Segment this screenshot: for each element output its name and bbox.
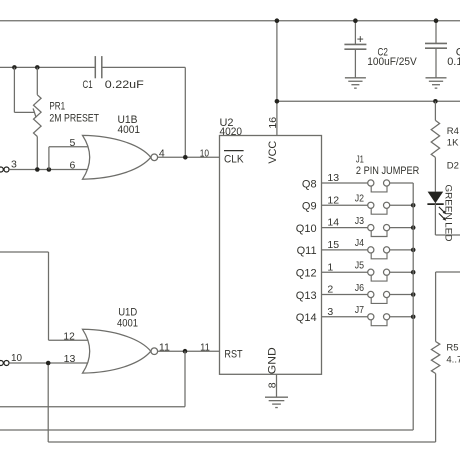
svg-text:2: 2 <box>327 284 333 296</box>
wire jumper J2 to bus <box>390 204 414 206</box>
gate U1B NOR body <box>83 135 151 179</box>
wire bottom return line <box>48 441 435 443</box>
svg-text:15: 15 <box>327 239 339 251</box>
pin number 11 at RST <box>200 342 210 354</box>
wire second VCC bus <box>277 100 460 102</box>
wire C1 right segment <box>102 66 186 68</box>
svg-text:12: 12 <box>63 330 75 342</box>
label C1 <box>83 79 93 91</box>
wire jumper J3 to bus <box>390 227 414 229</box>
U1D output bubble <box>151 348 158 355</box>
svg-text:4001: 4001 <box>118 124 141 136</box>
svg-text:13: 13 <box>64 353 76 365</box>
wire U2 Q12 pin 1 to jumper <box>322 271 368 273</box>
value 0.1uF clipped <box>447 56 460 68</box>
svg-text:J3: J3 <box>355 215 364 227</box>
node jumper bus junction J5 <box>411 270 416 275</box>
wire C1 net drop to U1B output <box>184 67 186 157</box>
svg-text:Q13: Q13 <box>296 290 317 302</box>
wire PR1 wiper branch horizontal <box>14 111 34 113</box>
pin number 10 at terminal <box>11 352 22 364</box>
wire bottom return rise to terminal 10 net <box>47 363 49 442</box>
svg-text:RST: RST <box>224 348 242 360</box>
svg-text:0.1uF: 0.1uF <box>447 56 460 68</box>
node top bus junction C3 <box>434 18 439 23</box>
pin name Q8 <box>302 178 317 190</box>
ground U2 pin8 <box>265 397 288 407</box>
pin number 12 <box>327 194 339 206</box>
svg-text:4..7K: 4..7K <box>446 355 460 366</box>
pin number 16 rotated <box>267 117 279 129</box>
svg-text:11: 11 <box>200 342 210 354</box>
value 4..7K clipped <box>446 355 460 366</box>
svg-text:J1: J1 <box>356 154 364 166</box>
ground C3 <box>426 78 447 88</box>
jumper J2 <box>368 202 390 214</box>
svg-text:J6: J6 <box>355 282 364 294</box>
label U1B 4001 <box>118 124 141 136</box>
label 2 PIN JUMPER <box>356 165 419 177</box>
pin number 14 <box>327 217 339 229</box>
wire U1D pin12 from left edge <box>0 252 91 340</box>
svg-text:Q12: Q12 <box>296 268 317 280</box>
pin name Q12 <box>296 268 317 280</box>
node jumper bus junction J2 <box>411 203 416 208</box>
svg-text:10: 10 <box>200 148 209 160</box>
svg-text:4020: 4020 <box>220 126 243 138</box>
pin number 13 <box>64 353 76 365</box>
svg-text:R4: R4 <box>447 126 459 137</box>
terminal pin 3 <box>0 167 9 172</box>
pin number 12 <box>63 330 75 342</box>
svg-text:J2: J2 <box>355 193 364 205</box>
pin number 6 <box>69 160 75 172</box>
svg-text:R5: R5 <box>446 343 458 354</box>
label D2 <box>447 160 459 171</box>
svg-text:Q11: Q11 <box>297 245 317 257</box>
svg-text:16: 16 <box>267 117 279 129</box>
pin number 4 <box>159 148 165 160</box>
jumper J6 <box>368 291 390 303</box>
label J3 <box>355 215 364 227</box>
svg-text:1K: 1K <box>447 137 459 148</box>
wire U2 pin8 to ground <box>276 374 278 397</box>
pin name VCC rotated <box>267 141 279 164</box>
svg-text:GND: GND <box>266 347 278 374</box>
wire PR1 wiper branch vertical <box>13 67 15 112</box>
label U1D <box>118 307 137 319</box>
node C1 line junction wiper branch <box>12 65 17 70</box>
node top bus junction C2 <box>353 18 358 23</box>
pin name CLK with overline <box>224 151 244 166</box>
svg-text:C1: C1 <box>83 79 93 91</box>
label U1D 4001 <box>117 318 138 330</box>
svg-text:Q9: Q9 <box>302 201 317 213</box>
label U2 <box>220 117 234 129</box>
svg-text:D2: D2 <box>447 160 459 171</box>
label PR1 <box>49 101 65 113</box>
wire R5 top from right edge <box>436 271 460 273</box>
pin number 1 <box>327 261 333 273</box>
pin name RST <box>224 348 242 360</box>
label GREEN LED rotated <box>442 185 453 242</box>
svg-text:VCC: VCC <box>267 141 279 164</box>
capacitor C1 <box>95 56 102 78</box>
pin name Q10 <box>296 223 317 235</box>
wire jumper bus bottom to left edge <box>0 429 413 431</box>
jumper J3 <box>368 225 390 237</box>
wire terminal 10 to U1D pin13 <box>9 362 90 364</box>
svg-text:13: 13 <box>327 172 339 184</box>
wire U2 Q8 pin 13 to jumper <box>322 182 368 184</box>
svg-text:100uF/25V: 100uF/25V <box>367 56 417 68</box>
svg-text:2 PIN JUMPER: 2 PIN JUMPER <box>356 165 419 177</box>
node U1D output junction <box>183 349 188 354</box>
label U1B <box>118 114 138 126</box>
svg-text:3: 3 <box>327 306 333 318</box>
pin number 8 rotated <box>267 382 279 388</box>
diode D2 green LED <box>427 192 446 221</box>
pin name Q13 <box>296 290 317 302</box>
jumper J7 <box>368 314 390 326</box>
label J4 <box>355 237 364 249</box>
node jumper bus junction J6 <box>411 292 416 297</box>
wire VCC top bus <box>0 20 460 22</box>
wire jumper J6 to bus <box>390 294 414 296</box>
svg-text:Q14: Q14 <box>296 312 317 324</box>
terminal pin 10 <box>0 361 9 366</box>
jumper J4 <box>368 247 390 259</box>
wire LED cathode down <box>434 204 436 235</box>
ground C2 <box>345 78 366 88</box>
svg-text:+: + <box>357 32 364 46</box>
pin number 5 <box>69 137 75 149</box>
node terminal3 wire junction PR1 bottom <box>35 167 40 172</box>
label C3 clipped <box>456 46 460 58</box>
svg-text:11: 11 <box>159 342 170 354</box>
wire U1B output to U2 CLK <box>158 156 220 158</box>
svg-text:J4: J4 <box>355 237 364 249</box>
C2 plus sign <box>357 32 364 46</box>
gate U1D NOR body <box>83 329 151 373</box>
node jumper bus junction J7 <box>411 315 416 320</box>
wire U2 pin16 VCC drop <box>276 21 278 136</box>
wire jumper J7 to bus <box>390 316 414 318</box>
node second bus junction at pin16 drop <box>275 99 280 104</box>
svg-text:GREEN LED: GREEN LED <box>442 185 453 242</box>
wire LED cathode exit right <box>435 234 460 236</box>
pin number 3 <box>11 159 17 171</box>
svg-text:3: 3 <box>11 159 17 171</box>
svg-text:12: 12 <box>327 194 339 206</box>
node jumper bus junction J3 <box>411 225 416 230</box>
node top bus junction at pin16 drop <box>275 18 280 23</box>
pin number 13 <box>327 172 339 184</box>
value 1K <box>447 137 459 148</box>
svg-text:1: 1 <box>327 261 333 273</box>
resistor R4 <box>431 101 439 192</box>
label J6 <box>355 282 364 294</box>
node jumper bus junction J4 <box>411 248 416 253</box>
svg-text:J5: J5 <box>355 260 364 272</box>
value 100uF/25V <box>367 56 417 68</box>
pin number 3 <box>327 306 333 318</box>
svg-text:0.22uF: 0.22uF <box>105 79 144 91</box>
node terminal3 wire junction pin5 branch <box>47 167 52 172</box>
wire U1D feedback down <box>184 351 186 407</box>
U1B output bubble <box>151 154 158 161</box>
wire U2 Q13 pin 2 to jumper <box>322 294 368 296</box>
pin number 11 at gate <box>159 342 170 354</box>
capacitor C3 <box>425 21 447 78</box>
resistor R5 <box>431 272 439 442</box>
svg-text:Q8: Q8 <box>302 178 317 190</box>
capacitor C2 <box>344 21 366 78</box>
label J5 <box>355 260 364 272</box>
node C1 line junction PR1 top <box>35 65 40 70</box>
wire jumper J1 to bus <box>390 182 414 184</box>
pin name GND rotated <box>266 347 278 374</box>
label C2 <box>378 46 388 58</box>
label J7 <box>355 304 364 316</box>
wire terminal 3 to U1B pin 6 <box>9 169 90 171</box>
op-amp U2 4020 counter box <box>220 136 322 375</box>
svg-text:6: 6 <box>69 160 75 172</box>
wire U2 Q9 pin 12 to jumper <box>322 204 368 206</box>
label R4 <box>447 126 459 137</box>
svg-text:4001: 4001 <box>117 318 138 330</box>
node terminal10 wire junction <box>46 361 51 366</box>
wire U1D output to U2 RST <box>158 350 220 352</box>
value 2M PRESET <box>49 112 99 124</box>
value 0.22uF <box>105 79 144 91</box>
svg-text:J7: J7 <box>355 304 364 316</box>
pin number 10 at CLK <box>200 148 209 160</box>
wire U2 Q10 pin 14 to jumper <box>322 227 368 229</box>
wire U2 Q11 pin 15 to jumper <box>322 249 368 251</box>
label J2 <box>355 193 364 205</box>
pin name Q9 <box>302 201 317 213</box>
svg-text:PR1: PR1 <box>49 101 65 113</box>
label J1 <box>356 154 364 166</box>
pin number 15 <box>327 239 339 251</box>
wire jumper J4 to bus <box>390 249 414 251</box>
jumper J5 <box>368 269 390 281</box>
wire U1D feedback to left edge <box>0 406 185 408</box>
svg-text:CLK: CLK <box>224 153 244 165</box>
wire jumper J5 to bus <box>390 271 414 273</box>
svg-text:5: 5 <box>69 137 75 149</box>
wire C1 left segment <box>0 66 95 68</box>
pin number 2 <box>327 284 333 296</box>
svg-text:14: 14 <box>327 217 339 229</box>
potentiometer PR1 <box>33 67 41 169</box>
svg-text:Q10: Q10 <box>296 223 317 235</box>
wire U2 Q14 pin 3 to jumper <box>322 316 368 318</box>
jumper J1 <box>368 180 390 192</box>
svg-text:2M PRESET: 2M PRESET <box>49 112 99 124</box>
wire U1B pin5 branch <box>49 147 91 170</box>
label R5 <box>446 343 458 354</box>
node U1B output junction <box>183 155 188 160</box>
pin name Q14 <box>296 312 317 324</box>
pin name Q11 <box>297 245 317 257</box>
label U2 4020 <box>220 126 243 138</box>
wire jumper bus vertical <box>412 183 414 430</box>
node second bus junction R4 <box>433 99 438 104</box>
